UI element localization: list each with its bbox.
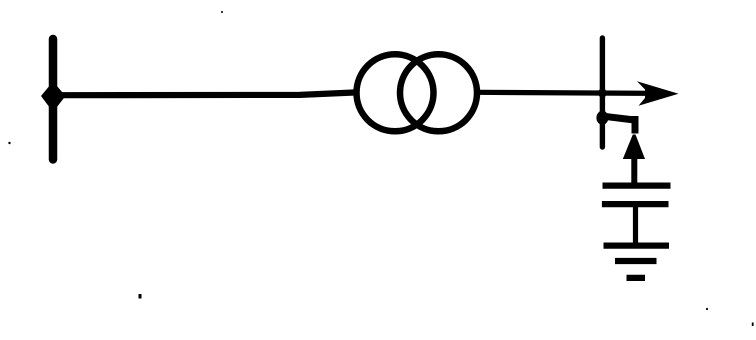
transformer T1 secondary winding circle (400, 54, 477, 131)
speck bottom left-of-centre (139, 294, 142, 299)
speck bottom right (706, 308, 708, 310)
capacitor bottom plate (602, 201, 669, 207)
busbar left (49, 39, 58, 160)
busbar right (600, 38, 605, 147)
transformer T1 primary winding circle (357, 54, 434, 131)
speck right edge tick (752, 323, 754, 327)
node: tap junction dot on right busbar (596, 111, 608, 125)
capacitor top plate (603, 182, 671, 188)
wire: tap stub corner down (632, 116, 639, 134)
speck near left edge (8, 142, 10, 144)
speck top middle (221, 11, 223, 13)
wire: left busbar to transformer (60, 92, 357, 95)
wire: capacitor to ground (633, 204, 638, 245)
ground symbol (604, 246, 670, 278)
wire: arrow shaft down to capacitor (631, 152, 637, 184)
node: wire crossing on right busbar (598, 89, 607, 98)
wire: transformer to right busbar (477, 92, 650, 93)
node: junction dot on left busbar (41, 82, 66, 113)
spark-gap arrowhead (arrester, pointing up) (623, 135, 645, 160)
wire: tap stub horizontal from busbar (600, 116, 637, 121)
load arrow (feeder continuing right) (637, 81, 679, 106)
